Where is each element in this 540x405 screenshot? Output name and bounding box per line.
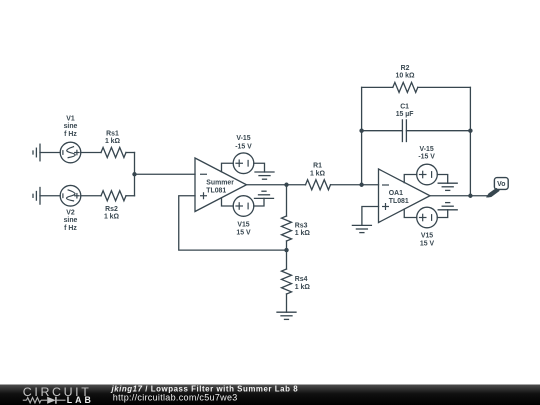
svg-text:15 V: 15 V xyxy=(420,241,435,248)
wire Rs1 right lead xyxy=(126,152,135,154)
resistor R2 xyxy=(393,82,418,92)
resistor Rs4 xyxy=(282,269,292,294)
svg-text:sine: sine xyxy=(64,217,78,224)
wire C1 right xyxy=(406,130,470,132)
node junction A xyxy=(132,172,136,176)
svg-text:-15 V: -15 V xyxy=(418,154,435,161)
resistor Rs3 xyxy=(282,216,292,241)
svg-text:TL081: TL081 xyxy=(389,198,409,205)
svg-text:Rs4: Rs4 xyxy=(295,276,308,283)
wire V2 to Rs2 xyxy=(81,195,101,197)
svg-text:C1: C1 xyxy=(400,104,409,111)
wire vertical join Rs1/Rs2 xyxy=(134,153,136,196)
footer bar xyxy=(0,385,540,405)
wire feedback left vertical xyxy=(361,87,363,184)
label Rs4 xyxy=(295,276,311,291)
wire Rs4 to ground xyxy=(286,294,288,312)
wire Rs3 top lead xyxy=(286,185,288,216)
ground (Rs4) xyxy=(277,312,296,319)
label OA1 TL081 xyxy=(389,190,409,205)
wire Rs3 bottom lead xyxy=(286,241,288,250)
label Summer TL081 xyxy=(206,179,234,194)
wire feedback right vertical xyxy=(469,87,471,195)
label Rs3 xyxy=(295,222,311,237)
source V2 xyxy=(60,185,81,206)
flag Vo xyxy=(486,178,508,198)
svg-text:f Hz: f Hz xyxy=(64,225,77,232)
ground (OA1 + input) xyxy=(352,225,371,232)
node OA1 output / feedback xyxy=(468,194,472,198)
node OA1 - input / feedback xyxy=(359,183,363,187)
wire OA1 + input to ground xyxy=(362,207,379,226)
op-amp OA1 TL081 xyxy=(379,169,431,223)
wire feedback top right xyxy=(418,86,471,88)
wire V1 to Rs1 xyxy=(81,152,101,154)
wire feedback top left xyxy=(362,86,393,88)
svg-text:Rs3: Rs3 xyxy=(295,222,308,229)
source V- (summer negative supply) xyxy=(222,153,265,174)
svg-text:V15: V15 xyxy=(421,233,433,240)
ground (summer V- supply) xyxy=(255,172,274,179)
wire junction to summer - input xyxy=(135,173,196,175)
capacitor C1 xyxy=(402,120,406,142)
resistor R1 xyxy=(306,180,331,190)
logo diode glyph xyxy=(47,397,65,404)
source V1 xyxy=(60,142,81,163)
svg-text:Vo: Vo xyxy=(497,181,505,188)
ground (summer V15 supply, inverted) xyxy=(255,191,274,198)
node C1 left xyxy=(359,129,363,133)
svg-text:sine: sine xyxy=(64,123,78,130)
wire C1 left xyxy=(362,130,403,132)
svg-text:1 kΩ: 1 kΩ xyxy=(104,214,120,221)
svg-text:-15 V: -15 V xyxy=(235,143,252,150)
svg-text:f Hz: f Hz xyxy=(64,131,77,138)
ground (left of V2) xyxy=(33,188,40,205)
svg-text:http://circuitlab.com/c5u7we3: http://circuitlab.com/c5u7we3 xyxy=(113,393,238,403)
wire ground to V1 xyxy=(40,152,60,154)
resistor Rs2 xyxy=(101,191,126,201)
resistor Rs1 xyxy=(101,148,126,158)
logo wire-resistor glyph xyxy=(23,398,47,403)
wire summer output xyxy=(247,184,287,186)
wire R1 left lead xyxy=(287,184,306,186)
source V-15 (OA1 negative supply) xyxy=(404,164,447,185)
svg-text:1 kΩ: 1 kΩ xyxy=(295,284,311,291)
svg-text:1 kΩ: 1 kΩ xyxy=(105,138,121,145)
svg-text:V2: V2 xyxy=(66,210,75,217)
node summer output xyxy=(284,183,288,187)
wire summer + feedback (left, down, right to Rs3/Rs4 node) xyxy=(179,196,287,250)
source V15 (summer positive supply) xyxy=(222,196,265,217)
svg-text:10 kΩ: 10 kΩ xyxy=(396,73,415,80)
schematic text labels xyxy=(64,65,506,291)
wire R1 to OA1 - input xyxy=(331,184,379,186)
ground (OA1 V- supply) xyxy=(438,183,457,190)
svg-text:V15: V15 xyxy=(237,221,249,228)
svg-text:TL081: TL081 xyxy=(206,187,226,194)
svg-text:1 kΩ: 1 kΩ xyxy=(310,170,326,177)
source V15 (OA1 positive supply) xyxy=(404,207,447,228)
wire ground to V2 xyxy=(40,195,60,197)
node C1 right xyxy=(468,129,472,133)
svg-text:R2: R2 xyxy=(401,65,410,72)
ground (OA1 V15 supply, inverted) xyxy=(438,203,457,210)
ground (left of V1) xyxy=(33,144,40,161)
wire Rs4 top lead xyxy=(286,250,288,269)
svg-text:Rs2: Rs2 xyxy=(105,206,118,213)
svg-text:R1: R1 xyxy=(313,162,322,169)
wire Rs2 right lead xyxy=(126,195,135,197)
svg-text:V-15: V-15 xyxy=(236,135,250,142)
op-amp U1 Summer TL081 xyxy=(195,158,247,212)
svg-text:V-15: V-15 xyxy=(420,146,434,153)
svg-text:Rs1: Rs1 xyxy=(106,130,119,137)
svg-text:V1: V1 xyxy=(66,116,75,123)
svg-text:15 V: 15 V xyxy=(236,229,251,236)
node Rs3/Rs4 junction xyxy=(284,248,288,252)
svg-text:1 kΩ: 1 kΩ xyxy=(295,230,311,237)
svg-text:Summer: Summer xyxy=(206,179,234,186)
svg-text:OA1: OA1 xyxy=(389,190,403,197)
svg-text:LAB: LAB xyxy=(67,395,91,405)
wire OA1 output xyxy=(430,195,490,197)
svg-text:15 µF: 15 µF xyxy=(396,111,414,118)
